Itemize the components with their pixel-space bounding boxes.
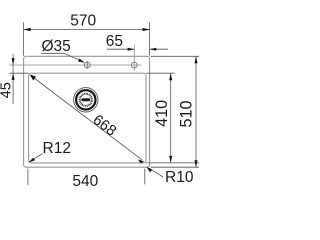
dim 540 (partial, cut at bottom): [28, 169, 145, 185]
svg-text:R10: R10: [165, 169, 194, 186]
svg-text:45: 45: [0, 82, 15, 98]
dim 410: [146, 73, 199, 163]
svg-text:410: 410: [153, 100, 171, 127]
tap hole centerline: [9, 64, 141, 66]
svg-text:65: 65: [106, 33, 123, 50]
dim 45: [9, 54, 28, 104]
diagonal 668 line: [30, 75, 145, 164]
dim 65: [107, 48, 168, 50]
svg-text:510: 510: [177, 100, 195, 127]
svg-text:570: 570: [70, 13, 96, 30]
sink bowl: [29, 73, 146, 163]
drain: [74, 88, 98, 112]
svg-text:R12: R12: [43, 140, 71, 157]
svg-text:540: 540: [72, 173, 98, 190]
sink outer rim: [24, 56, 150, 167]
dim 570: [24, 22, 150, 55]
svg-text:Ø35: Ø35: [42, 38, 71, 55]
dim 510: [151, 56, 199, 167]
tap hole 1 (Ø35): [84, 61, 90, 69]
tap hole 2: [131, 45, 137, 71]
